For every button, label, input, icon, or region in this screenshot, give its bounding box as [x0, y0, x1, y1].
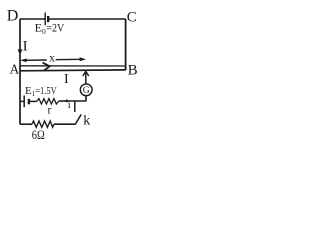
wire top DC right segment [49, 18, 125, 20]
svg-text:A: A [10, 62, 20, 77]
wire bottom right segment to switch hinge [54, 123, 75, 125]
current direction chevron on AB wire [43, 63, 50, 71]
svg-text:k: k [83, 114, 90, 129]
arrowhead x right [80, 57, 86, 61]
wire bottom left segment [20, 123, 32, 125]
galvanometer G circle [80, 84, 92, 96]
arrowhead I down on left wire [18, 49, 23, 55]
svg-text:G: G [83, 86, 90, 96]
resistor r zigzag [37, 99, 59, 104]
svg-text:=1.5V: =1.5V [35, 85, 57, 97]
svg-text:I: I [64, 72, 69, 87]
switch blade k [75, 114, 81, 124]
svg-text:I: I [23, 39, 28, 55]
switch fixed stub [74, 101, 76, 112]
svg-text:B: B [128, 63, 138, 79]
galvanometer stem bottom [85, 96, 87, 102]
svg-text:r: r [48, 105, 52, 117]
dimension arrow x right segment [56, 58, 81, 60]
battery E0 positive plate [44, 13, 46, 26]
jockey arrow stem [85, 72, 87, 84]
svg-text:C: C [127, 9, 137, 25]
wire top DC left segment [20, 18, 45, 20]
wire right C to B [125, 19, 127, 70]
wire AB lower line (potentiometer wire) [20, 69, 126, 72]
battery E0 negative plate [47, 16, 49, 22]
wire left D to A to bottom corner [19, 19, 21, 124]
wire battery row E1 r [20, 100, 23, 102]
arrowhead x left [21, 58, 27, 62]
wire r to G junction [59, 100, 86, 102]
wire to resistor r [30, 100, 37, 102]
battery E1 negative plate [28, 99, 30, 104]
svg-text:=2V: =2V [46, 20, 64, 34]
battery E1 positive plate [23, 96, 25, 108]
svg-text:D: D [7, 8, 19, 25]
resistor 6 ohm zigzag [32, 121, 54, 127]
svg-text:E: E [35, 20, 42, 34]
svg-text:i: i [68, 100, 71, 111]
jockey arrowhead open barbs [83, 71, 89, 76]
arrowhead i left on battery row [64, 99, 68, 102]
dimension arrow x left segment [22, 59, 47, 61]
svg-text:x: x [49, 50, 55, 64]
svg-text:6Ω: 6Ω [32, 127, 45, 142]
wire AB upper line [20, 65, 126, 67]
